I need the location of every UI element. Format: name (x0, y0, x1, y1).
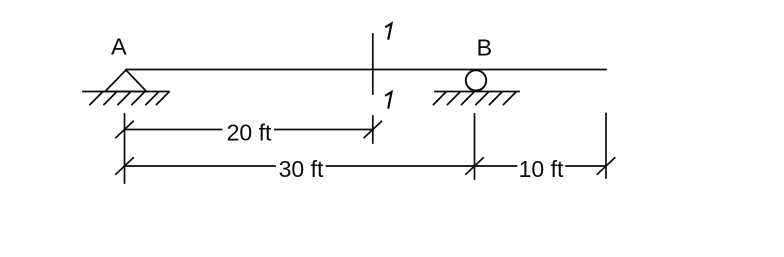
tick at B on 30/10 ft (466, 158, 483, 174)
hatching under A (90, 93, 169, 105)
extension line at B (474, 114, 476, 179)
label 1 bottom (385, 92, 391, 109)
svg-text:20 ft: 20 ft (227, 120, 272, 146)
extension line at right end (605, 114, 607, 179)
section line 1-1 (372, 34, 374, 94)
pin support A triangle (105, 70, 147, 92)
extension line at A (124, 114, 126, 183)
ground line under B (435, 91, 519, 93)
svg-text:30 ft: 30 ft (279, 156, 324, 182)
tick at left of 30 ft (116, 158, 133, 174)
dimension line 20 ft (125, 129, 222, 131)
ground line under A (83, 91, 169, 93)
dimension line 10 ft (475, 165, 517, 167)
tick at right of 10 ft (597, 158, 614, 174)
svg-text:10 ft: 10 ft (519, 156, 564, 182)
tick at right of 20 ft (364, 121, 381, 137)
roller support B circle (466, 70, 486, 90)
dimension line 30 ft (125, 165, 276, 167)
hatching under B (434, 93, 516, 105)
extension line at section 1-1 (372, 116, 374, 143)
svg-text:A: A (111, 34, 127, 60)
beam (126, 69, 606, 71)
label 1 top (385, 24, 391, 40)
svg-text:B: B (477, 35, 493, 61)
tick at left of 20 ft (116, 121, 133, 137)
